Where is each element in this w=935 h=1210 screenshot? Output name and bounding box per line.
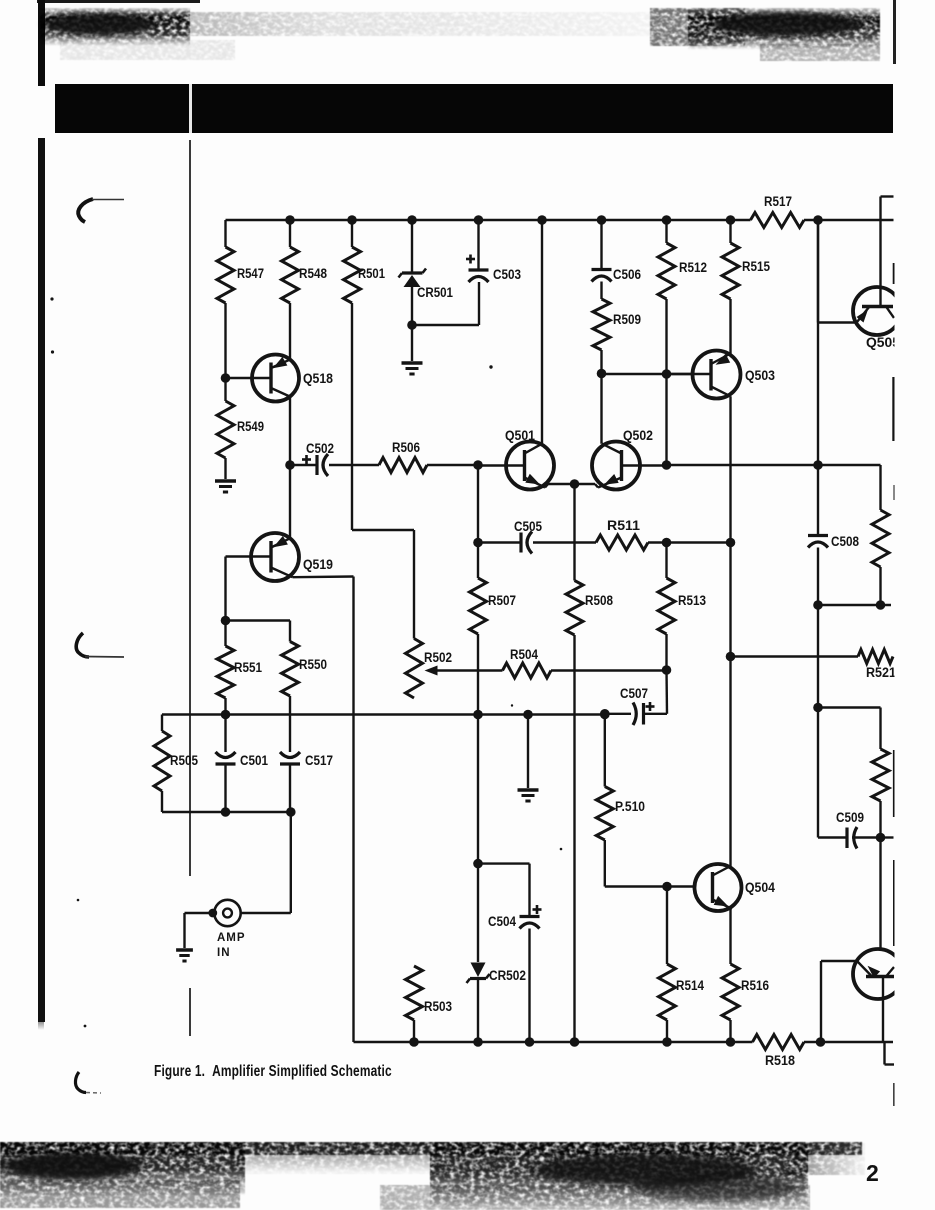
wire [729,396,731,868]
wire [879,465,881,510]
node R521-junction [726,652,736,662]
wire [892,377,895,441]
wire [666,1020,668,1042]
wire [667,464,881,466]
svg-text:P.510: P.510 [615,799,645,814]
svg-text:AMP: AMP [217,932,246,944]
node top-CR501 [407,215,417,225]
wire [226,619,291,621]
wire [817,220,819,323]
wire [605,840,695,887]
wire [729,909,731,964]
node C502-node [285,460,295,470]
svg-text:R521: R521 [866,665,896,680]
wire [329,464,379,466]
wire [879,838,881,950]
wire [817,548,819,606]
wire [648,541,731,543]
svg-text:C502: C502 [306,441,334,456]
header black bar [55,84,893,133]
capacitor C501 [216,715,269,813]
node rail-gnd [523,710,533,720]
wire [665,299,667,374]
wire [437,669,503,671]
transistor Q504 [695,864,776,911]
svg-text:R550: R550 [299,657,327,672]
wire [533,541,596,543]
wire [818,708,881,750]
node top-Q501C [537,215,547,225]
ground [402,325,423,374]
wire [293,575,354,578]
wire [893,485,896,500]
wire [352,577,354,1043]
capacitor C504 [488,905,542,929]
resistor R512 [658,220,707,299]
wire [289,696,291,715]
capacitor C508 [808,534,859,549]
wire [226,219,751,221]
wire [528,929,530,1043]
page number 2 [866,1160,879,1187]
capacitor C505 [478,519,542,554]
resistor R513 [658,578,706,634]
node R511-K [662,538,672,548]
node rail-bottom [525,1037,535,1047]
wire [729,299,731,354]
resistor R506 [379,440,427,473]
wire [575,484,599,488]
node rail-bottom [816,1037,826,1047]
capacitor C507 [620,686,655,725]
node top-C503 [474,215,484,225]
speck [50,297,562,1027]
svg-text:C509: C509 [836,810,864,825]
svg-text:C517: C517 [305,753,333,768]
wire [885,1042,895,1065]
wire [573,484,575,581]
node emitter-junction [570,479,580,489]
resistor R548 [282,220,328,303]
resistor R549 [217,378,264,458]
wire [224,303,226,378]
svg-text:Q519: Q519 [303,557,333,572]
svg-text:R517: R517 [764,194,792,209]
top right edge line [893,0,896,64]
node CR501-C503 [407,320,417,330]
transistor Q505 [853,287,901,350]
top edge line [37,0,200,3]
svg-text:CR501: CR501 [417,285,453,300]
wire [545,484,575,488]
node R509-bot [597,369,607,379]
wire [820,961,822,1042]
svg-text:R501: R501 [358,266,385,281]
resistor R503 [406,966,453,1020]
wire [162,713,605,715]
node rail-bottom [409,1037,419,1047]
node wiper-arrow [425,666,438,676]
svg-text:R515: R515 [742,259,770,274]
node low-C501 [221,807,231,817]
wire [821,960,858,962]
left margin line lower [189,988,191,1036]
wire [893,860,896,946]
node C505-left [473,538,483,548]
wire [289,303,291,360]
node A1 [221,373,231,383]
resistor R515 [722,220,770,299]
resistor R519 [872,510,889,567]
resistor P510 [596,715,645,841]
node C509-right [876,833,886,843]
wire [600,374,602,444]
wire [573,635,575,1042]
bottom smudge band [0,1140,935,1210]
wire [804,1041,893,1043]
resistor R508 [566,581,613,636]
node R519-bot [876,600,886,610]
wire [644,670,667,714]
node top-R501 [347,215,357,225]
left spine bar top [38,0,46,86]
diode CR501 [399,220,454,325]
capacitor C502 [290,441,334,476]
binder hook middle [70,625,130,665]
node R551-top [221,616,231,626]
wire [602,373,693,375]
svg-text:R512: R512 [679,260,707,275]
resistor R501 [344,220,386,303]
left spine bar main [38,138,45,1022]
svg-text:R508: R508 [585,593,613,608]
wire [352,530,414,639]
wire [477,715,479,864]
svg-text:Q505: Q505 [866,335,900,350]
transistor Q501 [478,428,554,490]
svg-text:C508: C508 [831,534,859,549]
wire [882,999,884,1043]
transistor Q506 [853,949,903,999]
svg-text:R551: R551 [234,660,262,675]
resistor R518 [753,1035,805,1069]
wire [665,634,667,670]
wire [412,324,479,326]
svg-text:R502: R502 [424,650,452,665]
wire [893,263,896,284]
node rail-P510 [600,710,610,720]
ground [215,481,236,492]
wire [541,220,543,444]
svg-text:C506: C506 [613,267,641,282]
wire [665,543,667,579]
svg-text:R511: R511 [607,518,641,533]
wire [477,634,479,715]
resistor R520 [872,749,889,801]
wire [731,655,859,657]
node C508-bot [813,600,823,610]
node rail-bottom [662,1037,672,1047]
wire [289,396,291,465]
resistor R550 [282,621,328,697]
resistor R516 [722,964,769,1020]
svg-text:R504: R504 [510,647,538,662]
resistor R507 [470,578,517,634]
node Q504-base [662,882,672,892]
svg-text:R505: R505 [170,753,198,768]
node top-R515 [726,215,736,225]
wire [600,350,602,374]
svg-text:C504: C504 [488,914,516,929]
node R517-right [813,215,823,225]
left margin line [189,140,191,876]
binder hook bottom [68,1065,118,1100]
svg-text:R503: R503 [424,999,452,1014]
node top-C506 [597,215,607,225]
node C507-left [600,709,610,719]
svg-text:Q501: Q501 [505,428,535,443]
node rail-bottom [473,1037,483,1047]
node rail-bottom [570,1037,580,1047]
ground [518,715,539,802]
resistor R551 [217,621,262,699]
wire [354,1041,753,1043]
wire [893,1083,896,1106]
svg-text:R506: R506 [392,440,420,455]
svg-text:R513: R513 [678,593,706,608]
node Q502-base [662,460,672,470]
ground [176,950,193,961]
svg-text:R518: R518 [765,1053,795,1068]
node low-C517 [286,807,296,817]
wire [817,605,819,708]
node top-R512 [662,215,672,225]
wire [852,836,881,838]
svg-text:C507: C507 [620,686,648,701]
svg-text:R548: R548 [299,266,327,281]
wire [817,220,819,465]
wire [289,465,291,538]
svg-text:Q504: Q504 [745,880,775,895]
svg-text:CR502: CR502 [489,968,526,983]
node M-465 [813,460,823,470]
wire [804,219,894,221]
wire [224,458,226,479]
wire [605,713,631,715]
binder hook top [70,190,130,230]
capacitor C506 [592,220,642,282]
wire [551,669,667,671]
resistor R509 [593,282,641,351]
node M-707 [813,703,823,713]
svg-text:Q518: Q518 [303,371,333,386]
node rail-R507 [473,710,483,720]
node Q501-base [473,460,483,470]
svg-text:R509: R509 [613,312,641,327]
top smudge band [0,0,935,80]
node rail-C501 [221,710,231,720]
svg-text:R547: R547 [237,266,264,281]
wire [879,567,881,605]
svg-text:R549: R549 [237,419,264,434]
potentiometer R502 [406,639,453,699]
resistor R517 [751,194,805,228]
resistor R547 [217,220,264,303]
transistor Q502 [592,428,667,490]
wire [413,1020,415,1042]
svg-text:IN: IN [217,947,231,959]
svg-text:R516: R516 [741,978,769,993]
node top-R548 [285,215,295,225]
wire [818,604,891,606]
svg-text:Q503: Q503 [745,368,775,383]
svg-text:C505: C505 [514,519,542,534]
svg-text:R514: R514 [676,978,704,993]
node R511-L [726,538,736,548]
wire [351,303,353,530]
wire [477,465,479,543]
wire [427,464,478,466]
wire [879,801,881,838]
wire [665,374,667,465]
svg-text:R507: R507 [488,593,516,608]
svg-text:C501: C501 [240,753,268,768]
diode CR502 [467,864,527,983]
svg-text:C503: C503 [493,267,521,282]
transistor Q518 [226,355,334,402]
wire [881,197,894,307]
wire [818,708,847,838]
wire [224,698,226,715]
transistor Q503 [667,351,776,399]
capacitor C509 [836,810,864,849]
resistor R521 [858,650,896,681]
node R512-bot [662,369,672,379]
wire [224,557,226,621]
wire [893,750,896,817]
transistor Q519 [226,533,334,581]
node C504-left [473,859,483,869]
wire [478,864,530,916]
wire [817,465,819,534]
node R504-junction [662,665,672,675]
wire [162,791,291,812]
wire [729,1020,731,1042]
caption Figure 1 [154,1063,392,1081]
svg-text:Q502: Q502 [623,428,653,443]
wire [477,543,479,579]
capacitor C503 [466,220,521,325]
wire [881,836,894,838]
resistor R511 [596,518,648,550]
wire [818,321,857,323]
node rail-bottom [726,1037,736,1047]
resistor R514 [659,887,705,1021]
capacitor C517 [280,715,333,812]
connector AMP IN [185,812,291,959]
wire [477,980,479,1042]
header bar white gap [189,84,192,133]
resistor R505 [154,715,198,792]
resistor R504 [503,647,552,678]
